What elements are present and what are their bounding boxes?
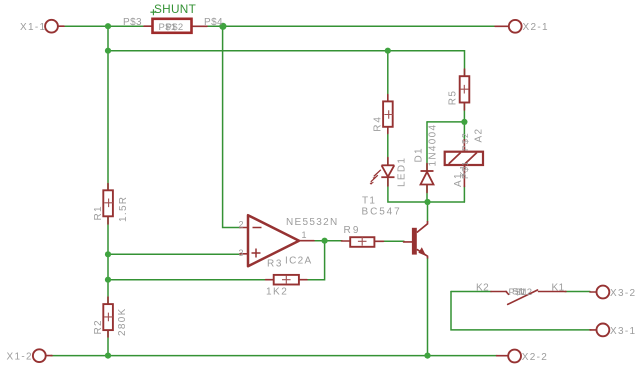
- svg-text:M2: M2: [519, 287, 533, 298]
- svg-text:P$4: P$4: [204, 17, 223, 28]
- svg-text:280K: 280K: [117, 307, 128, 336]
- svg-text:R3: R3: [267, 259, 283, 270]
- svg-text:K1: K1: [552, 282, 565, 293]
- svg-text:D1: D1: [414, 147, 425, 162]
- svg-text:T1: T1: [362, 196, 376, 207]
- svg-text:X3-1: X3-1: [610, 326, 636, 337]
- svg-text:1K2: 1K2: [266, 287, 288, 298]
- svg-text:A2: A2: [474, 128, 485, 143]
- svg-text:1N4004: 1N4004: [428, 124, 439, 167]
- svg-text:1: 1: [302, 230, 307, 240]
- svg-text:X2-2: X2-2: [522, 352, 548, 363]
- svg-text:R9: R9: [344, 225, 361, 236]
- svg-text:P$3: P$3: [123, 17, 142, 28]
- svg-text:3: 3: [239, 248, 244, 258]
- svg-text:IC2A: IC2A: [285, 256, 312, 267]
- svg-text:K2: K2: [476, 282, 489, 293]
- svg-text:X1-1: X1-1: [20, 22, 46, 33]
- svg-text:R1: R1: [93, 205, 104, 220]
- svg-text:LED1: LED1: [397, 157, 408, 187]
- svg-text:X3-2: X3-2: [610, 288, 636, 299]
- svg-text:P$2: P$2: [460, 132, 470, 151]
- svg-text:R4: R4: [373, 115, 384, 132]
- svg-text:NE5532N: NE5532N: [286, 217, 338, 228]
- svg-text:1.5R: 1.5R: [118, 196, 129, 222]
- svg-text:K1: K1: [458, 164, 468, 177]
- svg-text:X2-1: X2-1: [523, 22, 549, 33]
- svg-text:R5: R5: [448, 90, 459, 106]
- svg-text:X1-2: X1-2: [7, 352, 33, 363]
- svg-text:R2: R2: [93, 319, 104, 334]
- svg-text:P$2: P$2: [166, 22, 184, 33]
- svg-text:BC547: BC547: [362, 206, 402, 217]
- svg-text:2: 2: [239, 219, 244, 229]
- svg-text:SHUNT: SHUNT: [154, 2, 196, 16]
